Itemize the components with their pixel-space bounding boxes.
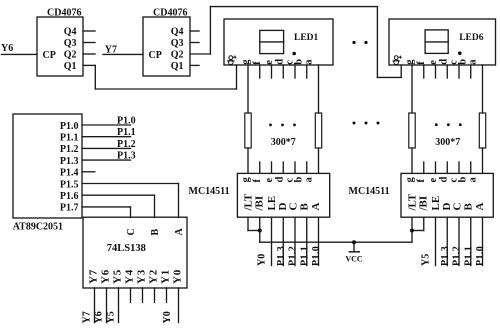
svg-text:a: a [304, 59, 315, 65]
svg-text:Y7: Y7 [105, 45, 117, 56]
svg-text:Q1: Q1 [64, 61, 77, 72]
svg-text:P1.1: P1.1 [299, 246, 310, 266]
svg-text:300*7: 300*7 [435, 137, 460, 148]
svg-text:Q4: Q4 [64, 26, 77, 37]
svg-text:e: e [428, 178, 439, 183]
svg-text:A: A [174, 228, 185, 236]
svg-text:Y5: Y5 [106, 311, 117, 323]
svg-text:Y4: Y4 [123, 269, 135, 284]
svg-text:P1.3: P1.3 [276, 246, 287, 266]
svg-text:a: a [304, 177, 315, 183]
svg-text:Y6: Y6 [99, 269, 111, 284]
svg-text:Y6: Y6 [94, 311, 105, 323]
svg-text:P1.0: P1.0 [311, 246, 322, 266]
svg-text:Y0: Y0 [171, 269, 183, 284]
svg-text:P1.4: P1.4 [60, 168, 79, 179]
svg-text:Y3: Y3 [135, 269, 147, 284]
svg-text:Q4: Q4 [171, 26, 184, 37]
svg-text:MC14511: MC14511 [189, 186, 230, 197]
svg-text:P1.7: P1.7 [60, 203, 79, 214]
svg-text:Y0: Y0 [162, 311, 173, 323]
svg-text:A: A [474, 203, 486, 211]
svg-text:P1.2: P1.2 [452, 246, 463, 266]
svg-text:300*7: 300*7 [271, 137, 296, 148]
svg-text:g: g [405, 177, 416, 183]
svg-text:e: e [428, 60, 439, 65]
svg-text:f: f [252, 61, 263, 65]
svg-text:C: C [126, 228, 137, 235]
svg-text:P1.0: P1.0 [60, 121, 79, 132]
svg-text:P1.3: P1.3 [60, 156, 79, 167]
svg-text:VCC: VCC [345, 255, 363, 264]
svg-text:/BI: /BI [253, 196, 265, 212]
svg-text:P1.1: P1.1 [60, 133, 79, 144]
svg-text:Q3: Q3 [171, 38, 184, 49]
svg-text:P1.1: P1.1 [463, 246, 474, 266]
svg-text:Y2: Y2 [147, 269, 159, 284]
svg-text:CD4076: CD4076 [47, 8, 81, 19]
svg-text:Q2: Q2 [64, 49, 77, 60]
svg-text:f: f [416, 61, 427, 65]
svg-text:CP: CP [149, 50, 162, 61]
svg-text:P1.2: P1.2 [117, 139, 136, 150]
svg-text:CD4076: CD4076 [153, 8, 187, 19]
svg-text:Y7: Y7 [87, 269, 99, 284]
svg-text:74LS138: 74LS138 [107, 243, 146, 254]
svg-text:CP: CP [43, 50, 56, 61]
svg-text:Y5: Y5 [111, 269, 123, 284]
svg-text:Q1: Q1 [171, 61, 184, 72]
svg-text:Q3: Q3 [64, 38, 77, 49]
svg-text:Y7: Y7 [82, 311, 93, 323]
svg-text:P1.3: P1.3 [440, 246, 451, 266]
svg-text:B: B [150, 229, 161, 236]
svg-text:P1.0: P1.0 [117, 116, 136, 127]
svg-text:f: f [416, 179, 427, 183]
svg-text:e: e [264, 178, 275, 183]
svg-text:Y0: Y0 [257, 254, 268, 266]
svg-text:P1.5: P1.5 [60, 179, 79, 190]
svg-text:g: g [241, 59, 252, 65]
svg-text:P1.6: P1.6 [60, 191, 79, 202]
svg-text:MC14511: MC14511 [349, 186, 390, 197]
svg-text:e: e [264, 60, 275, 65]
svg-text:Y5: Y5 [421, 254, 432, 266]
svg-text:g: g [241, 177, 252, 183]
svg-text:AT89C2051: AT89C2051 [13, 222, 63, 233]
svg-text:P1.2: P1.2 [60, 144, 79, 155]
svg-text:P1.2: P1.2 [288, 246, 299, 266]
svg-text:/BI: /BI [417, 196, 429, 212]
svg-text:LED1: LED1 [294, 33, 319, 43]
svg-text:P1.1: P1.1 [117, 127, 136, 138]
svg-text:P1.0: P1.0 [475, 246, 486, 266]
svg-text:Y1: Y1 [159, 269, 171, 284]
svg-text:f: f [252, 179, 263, 183]
svg-text:P1.3: P1.3 [117, 151, 136, 162]
svg-text:g: g [405, 59, 416, 65]
svg-text:A: A [310, 203, 322, 211]
svg-text:Q2: Q2 [171, 49, 184, 60]
svg-text:a: a [468, 59, 479, 65]
svg-text:B: B [462, 203, 474, 211]
svg-text:B: B [298, 203, 310, 211]
svg-text:Y6: Y6 [1, 43, 13, 54]
svg-text:LED6: LED6 [459, 33, 484, 43]
svg-text:a: a [468, 177, 479, 183]
